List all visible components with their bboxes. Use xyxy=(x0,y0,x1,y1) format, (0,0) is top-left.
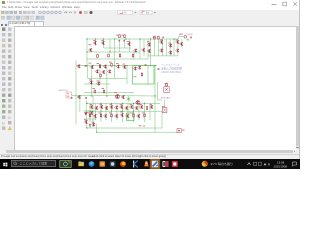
transistor Q35 xyxy=(139,105,143,109)
wire vertical x150 bot xyxy=(149,103,151,120)
transistor Q40 (power, circled) xyxy=(136,101,140,105)
wire mid rail y65.6 xyxy=(76,65,157,67)
transistor Q25 xyxy=(89,105,93,109)
coordinate row xyxy=(0,21,300,27)
svg-text:ここに入力して検索: ここに入力して検索 xyxy=(20,161,48,166)
wire vertical x79.9 xyxy=(79,99,81,112)
wire vertical x157.7 out xyxy=(158,82,162,100)
wire vertical x93 xyxy=(92,96,94,127)
ferrite bead L1 xyxy=(164,87,169,93)
svg-text:G: G xyxy=(2,120,5,125)
transistor Q14 xyxy=(133,67,137,71)
transistor Q1 xyxy=(88,48,92,52)
transistor Q43 xyxy=(84,112,87,115)
wire vertical x95.5 bot xyxy=(95,103,97,120)
transistor Q11 xyxy=(175,40,179,44)
wire vertical x134 xyxy=(133,52,135,59)
wire vertical x110 xyxy=(109,39,111,52)
resistor R14 xyxy=(146,107,148,110)
wire vertical x128 bot xyxy=(127,103,129,120)
explorer xyxy=(79,162,84,166)
svg-text:DC15V: DC15V xyxy=(187,34,194,36)
wire vertical x129.5 xyxy=(129,39,131,52)
wire rail y52 xyxy=(87,51,140,53)
wire vertical x154.5 xyxy=(154,39,156,56)
search box xyxy=(12,160,56,166)
wire vertical x174 xyxy=(173,39,175,56)
wire vertical x103.5 xyxy=(103,39,105,48)
wire vertical x148 xyxy=(147,39,149,59)
wire power drop x181.9 xyxy=(181,39,183,47)
transistor Q41 xyxy=(125,114,129,118)
wire vertical x76 long xyxy=(75,61,77,125)
wire vertical x144.5 bot xyxy=(144,103,146,122)
connector J2 (output) xyxy=(177,129,181,133)
notification xyxy=(293,162,297,166)
transistor Q18 xyxy=(116,65,120,69)
wire vertical x87.7 mid xyxy=(87,66,89,79)
firefox xyxy=(120,161,126,167)
connector J1 (audio input) xyxy=(66,92,72,98)
svg-text:2023/10/08: 2023/10/08 xyxy=(274,164,288,168)
transistor Q24 xyxy=(77,95,81,99)
resistor R12 xyxy=(94,90,96,93)
transistor Q27 xyxy=(99,105,103,109)
wire vertical x166.2 xyxy=(165,39,167,56)
toolbar row 2 xyxy=(0,15,300,22)
transistor Q45 xyxy=(84,120,88,124)
resistor R2 xyxy=(124,35,126,38)
title bar xyxy=(0,0,300,11)
resistor R7 xyxy=(154,36,156,39)
wire rail y96 input xyxy=(72,95,156,98)
wire vertical x106.9 mid xyxy=(106,66,108,96)
resistor R18 xyxy=(133,114,135,117)
wire rail y92.6 xyxy=(84,92,134,94)
orange icon xyxy=(100,161,106,167)
resistor R8 xyxy=(158,36,160,39)
transistor Q16 xyxy=(90,65,94,69)
toolbar row 1 xyxy=(0,10,300,17)
schematic SVG xyxy=(0,0,300,169)
label J2 xyxy=(182,130,185,131)
svg-text:2ACID K03 BUA: 2ACID K03 BUA xyxy=(161,70,181,74)
edge blue sphere xyxy=(89,161,95,167)
wire vertical x122.5 bot xyxy=(122,103,124,122)
transistor Q28 xyxy=(104,106,108,110)
transistor Q2 xyxy=(93,41,97,45)
resistor R11 xyxy=(111,63,113,66)
resistor R20 xyxy=(166,83,168,86)
menu bar xyxy=(2,6,80,9)
resistor R19 xyxy=(144,114,146,117)
wire bottom rail y132.2 xyxy=(97,131,177,133)
resistor R9 xyxy=(141,73,143,76)
svg-text:15:08: 15:08 xyxy=(277,161,285,165)
wire vertical x114.7 mid xyxy=(114,66,116,79)
transistor Q53 xyxy=(77,64,81,68)
transistor Q38 xyxy=(103,114,107,118)
wire vertical x133.5 bot xyxy=(133,103,135,122)
resistor R16 xyxy=(100,114,102,117)
wire bottom rail y128 xyxy=(87,127,162,129)
transistor Q9 xyxy=(168,44,172,48)
svg-text:31°C 晴のち曇り: 31°C 晴のち曇り xyxy=(211,161,234,166)
svg-text:AUDIO IN: AUDIO IN xyxy=(59,89,68,92)
status bar xyxy=(0,154,300,160)
diode D1 xyxy=(119,40,121,42)
wire rail y119 xyxy=(84,118,96,120)
transistor Q48 xyxy=(133,49,137,53)
wire bottom rail y103.4 xyxy=(87,102,160,104)
capacitor C6 xyxy=(85,98,87,99)
resistor R3 xyxy=(97,55,99,58)
resistor R10 xyxy=(99,65,101,68)
weather icon xyxy=(202,161,208,167)
transistor Q51 xyxy=(101,70,105,74)
transistor Q50 xyxy=(95,70,99,74)
wire rail y110.9 xyxy=(83,110,93,112)
wire output drop x164.5 xyxy=(164,100,166,107)
node green box inner xyxy=(147,66,149,84)
wire vertical x106 bot xyxy=(105,103,107,120)
wire rail y59 xyxy=(87,58,148,60)
K icon xyxy=(133,161,135,168)
transistor Q13 xyxy=(179,42,183,46)
transistor Q33 xyxy=(129,105,133,109)
wire vertical x177.9 xyxy=(177,39,179,56)
wire vertical x156 long xyxy=(154,66,156,133)
transistor Q37 xyxy=(93,114,97,118)
vertical scrollbar xyxy=(296,26,301,150)
white/red icon xyxy=(162,161,168,167)
VLC cone xyxy=(144,161,148,166)
green pinned icon xyxy=(60,161,71,168)
ferrite bead L2 xyxy=(162,108,167,113)
wire vertical x140 xyxy=(139,39,141,59)
coordinate row left icons xyxy=(1,24,3,26)
transistor Q8 xyxy=(159,49,163,53)
tray icons xyxy=(254,162,257,165)
value labels (red smudges) xyxy=(84,34,183,127)
transistor Q12 xyxy=(175,49,179,53)
wire vertical x91.8 mid xyxy=(91,66,93,96)
transistor Q36 xyxy=(149,105,153,109)
svg-text:G: G xyxy=(8,114,11,119)
transistor Q10 xyxy=(168,51,172,55)
node green part highlight xyxy=(127,96,131,101)
resistor R6 xyxy=(132,54,134,57)
transistor Q32 xyxy=(124,106,128,110)
svg-text:ヘッドホンアンプ: ヘッドホンアンプ xyxy=(161,62,180,66)
wire rail y84 xyxy=(84,83,110,85)
wire vertical x100 mid xyxy=(99,66,101,84)
start button xyxy=(0,159,11,169)
gray-blue icon xyxy=(110,161,116,167)
transistor Q15 xyxy=(137,66,141,70)
wire bottom rail y111.2 xyxy=(85,110,162,112)
transistor Q31 xyxy=(119,105,123,109)
wire vertical x90 bot xyxy=(89,103,91,122)
wire vertical x95.5 xyxy=(95,39,97,46)
transistor Q3 xyxy=(101,41,105,45)
wire rail step to power xyxy=(179,37,184,40)
active EAGLE app (highlighted) xyxy=(150,159,160,169)
wire output bottom bus xyxy=(148,55,178,57)
wire vertical x101 bot xyxy=(100,103,102,122)
wire vertical x111.5 bot xyxy=(111,103,113,122)
resistor R1 xyxy=(119,35,121,38)
wire vertical x144 xyxy=(143,39,145,56)
canvas background xyxy=(0,25,300,150)
wire vertical x158.4 xyxy=(157,39,159,56)
transistor Q19 xyxy=(122,65,126,69)
svg-text:N: N xyxy=(125,10,127,14)
wire vertical x127 mid xyxy=(126,66,128,84)
wire vertical x124.5 xyxy=(124,39,126,48)
transistor Q22 (power, circled) xyxy=(115,94,119,98)
transistor Q30 xyxy=(114,106,118,110)
wire vertical x114.7 xyxy=(114,39,116,66)
node green box (selected net) xyxy=(133,66,155,84)
capacitor C3 xyxy=(85,66,87,67)
transistor Q34 xyxy=(134,106,138,110)
taskbar xyxy=(0,159,300,169)
wire vertical x96.7 xyxy=(96,124,98,132)
transistor Q23 xyxy=(121,95,125,99)
wire rail y48 xyxy=(104,47,131,49)
transistor Q42 xyxy=(136,114,140,118)
wire vertical x117 bot xyxy=(116,103,118,120)
red icon xyxy=(172,161,178,167)
transistor Q6 xyxy=(147,49,151,53)
label GND green xyxy=(78,97,81,98)
resistor R15 xyxy=(89,114,91,117)
diode D4 xyxy=(89,124,90,128)
transistor Q46 xyxy=(91,123,95,127)
transistor Q49 xyxy=(141,48,145,52)
svg-text:Bu: Bu xyxy=(146,10,150,14)
wire vertical x162 xyxy=(161,111,163,128)
wire vertical x162.3 xyxy=(161,39,163,56)
resistor R21 xyxy=(100,74,102,77)
diode D2 xyxy=(124,40,126,42)
power connector X1 xyxy=(184,36,187,39)
transistor Q21 xyxy=(96,82,100,86)
svg-text:A: A xyxy=(268,162,271,166)
transistor Q29 xyxy=(109,105,113,109)
transistor Q39 xyxy=(114,114,118,118)
junction dots xyxy=(86,38,174,133)
resistor R13 xyxy=(103,90,105,93)
transistor Q5 xyxy=(147,43,151,47)
capacitor C5 xyxy=(71,98,73,99)
transistor Q7 xyxy=(159,40,163,44)
transistor Q4 xyxy=(127,42,131,46)
capacitor C4 xyxy=(158,68,160,69)
horizontal scrollbar xyxy=(0,150,300,155)
capacitor C1 xyxy=(190,37,192,38)
svg-text:BLM 2A05: BLM 2A05 xyxy=(161,96,171,99)
transistor Q47 xyxy=(120,113,124,117)
wire vertical x170.1 xyxy=(169,39,171,56)
wire-bend combo boxes xyxy=(118,10,133,14)
transistor Q17 xyxy=(103,65,107,69)
wire vertical x86.2 xyxy=(85,100,87,128)
svg-text:差動入力帰還回路: 差動入力帰還回路 xyxy=(161,66,182,70)
transistor Q26 xyxy=(94,106,98,110)
capacitor C2 xyxy=(145,65,147,66)
transistor Q52 xyxy=(107,70,111,74)
wire top positive rail xyxy=(87,38,179,40)
wire stub at power xyxy=(187,39,190,42)
wire vertical x150.6 xyxy=(150,39,152,66)
transistor Q44 xyxy=(89,111,93,115)
resistor R4 xyxy=(108,54,110,57)
wire vertical x119.5 xyxy=(119,39,121,52)
window right border xyxy=(299,0,300,159)
tray arrow xyxy=(248,163,251,165)
wire vertical x139 bot xyxy=(138,103,140,120)
diode D3 xyxy=(163,36,165,38)
node green box bottom (selected) xyxy=(127,113,135,121)
resistor R5 xyxy=(119,54,121,57)
wire rail y78.3 xyxy=(88,77,127,79)
left tool palette xyxy=(0,26,15,150)
transistor Q20 xyxy=(89,81,93,85)
resistor R17 xyxy=(111,114,113,117)
wire vertical x87 xyxy=(86,39,88,66)
